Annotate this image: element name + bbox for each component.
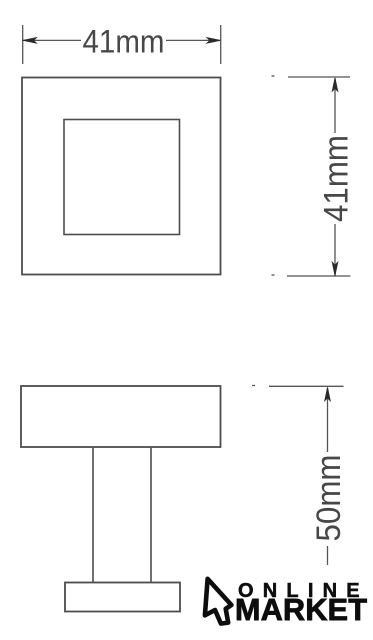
arrow left (top 41mm)	[23, 38, 37, 44]
svg-text:MARKET: MARKET	[235, 593, 367, 627]
dimension line bottom segment (50mm)	[327, 546, 329, 565]
logo cursor arrow	[205, 579, 232, 624]
extension line top (right 41mm dimension)	[288, 76, 350, 78]
arrow right (top 41mm)	[207, 38, 221, 44]
arrow up (50mm)	[325, 387, 331, 401]
dimension line top segment (right 41mm)	[334, 79, 336, 134]
dimension line right segment (top 41mm)	[166, 39, 220, 41]
svg-text:41mm: 41mm	[83, 24, 165, 60]
arrow down (right 41mm)	[332, 262, 338, 276]
dimension line top segment (50mm)	[327, 388, 329, 452]
base block (side view)	[65, 583, 180, 612]
extension line bottom (right 41mm dimension)	[287, 275, 351, 277]
top plate (side view)	[21, 386, 221, 447]
svg-text:41mm: 41mm	[317, 135, 355, 222]
extension line left (top 41mm dimension)	[22, 25, 24, 64]
stem right wire (side view)	[150, 448, 152, 582]
extension tick dot bottom (right 41mm)	[272, 274, 275, 276]
extension line right (top 41mm dimension)	[220, 25, 222, 64]
dimension line left segment (top 41mm)	[23, 39, 81, 41]
svg-text:50mm: 50mm	[310, 455, 348, 542]
dimension line bottom segment (right 41mm)	[334, 224, 336, 276]
extension line top (50mm dimension)	[269, 385, 344, 387]
extension tick dot top (right 41mm)	[272, 75, 275, 77]
stem left wire (side view)	[92, 448, 94, 582]
arrow up (right 41mm)	[332, 78, 338, 92]
outer square (top view)	[22, 78, 221, 275]
extension tick dot (50mm)	[252, 385, 255, 387]
inner square (top view)	[64, 120, 180, 235]
